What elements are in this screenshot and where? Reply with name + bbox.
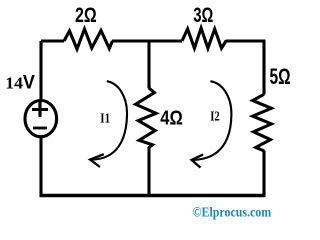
- voltage source plus sign: [32, 102, 48, 117]
- wire top-left segment: [41, 39, 64, 42]
- wire left lower (source to bottom): [39, 138, 42, 197]
- voltage source minus sign: [33, 127, 47, 130]
- svg-text:2Ω: 2Ω: [75, 4, 97, 27]
- wire top-middle segment: [112, 39, 182, 42]
- svg-text:©Elprocus.com: ©Elprocus.com: [193, 206, 272, 221]
- resistor R3 4ohm zigzag: [136, 88, 157, 148]
- resistor R4 5ohm zigzag: [253, 94, 272, 151]
- resistor R1 2ohm zigzag: [64, 29, 112, 49]
- voltage source V1 circle: [25, 101, 57, 137]
- wire top-right segment: [226, 39, 265, 42]
- wire bottom rail: [40, 194, 266, 197]
- svg-text:14V: 14V: [5, 73, 35, 94]
- mesh current I2 arrowhead: [192, 154, 204, 167]
- svg-text:4Ω: 4Ω: [160, 108, 183, 130]
- svg-text:3Ω: 3Ω: [193, 4, 213, 27]
- wire left upper (source to top): [39, 41, 42, 100]
- wire right lower stub: [262, 151, 265, 197]
- wire right upper stub: [262, 41, 265, 95]
- mesh current I2 arrow arc: [194, 81, 231, 160]
- svg-text:I1: I1: [100, 111, 110, 126]
- wire middle upper stub: [147, 41, 150, 89]
- svg-text:5Ω: 5Ω: [270, 64, 291, 89]
- mesh current I1 arrow arc: [93, 81, 128, 159]
- resistor R2 3ohm zigzag: [182, 28, 226, 48]
- mesh current I1 arrowhead: [90, 154, 104, 167]
- svg-text:I2: I2: [210, 110, 220, 125]
- wire middle lower stub: [147, 147, 150, 196]
